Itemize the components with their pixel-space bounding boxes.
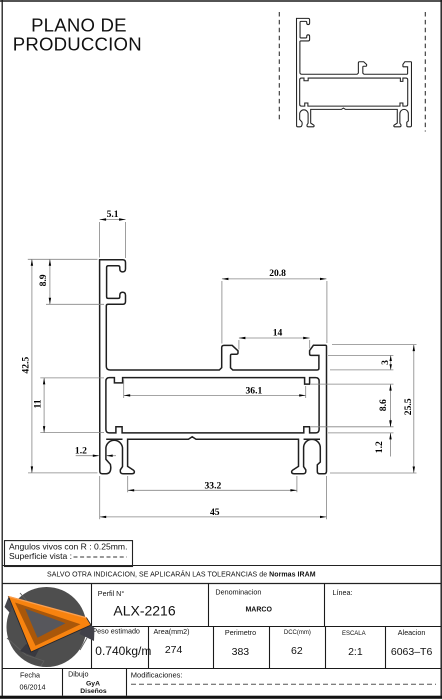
dimension 33.2 lines [127,476,129,492]
svg-text:Perfil N°: Perfil N° [98,589,125,598]
wire: bottom wall underside over left arch [106,438,122,440]
svg-text:20.8: 20.8 [269,268,286,279]
svg-text:33.2: 33.2 [205,481,222,492]
logo orange triangle frame [9,597,92,653]
svg-text:Diseños: Diseños [80,688,107,695]
svg-text:Línea:: Línea: [333,588,353,597]
dimension 42.5 line [31,259,33,473]
svg-text:Area(mm2): Area(mm2) [154,627,190,636]
svg-text:62: 62 [291,645,303,657]
dimension 11 lines [40,377,104,379]
svg-text:PRODUCCION: PRODUCCION [13,34,142,55]
svg-text:14: 14 [273,327,283,338]
mini view dashed line left [278,12,280,120]
svg-text:Perimetro: Perimetro [225,628,256,637]
dimension 8.6 lines [311,383,394,385]
svg-text:ESCALA: ESCALA [342,631,366,637]
svg-text:SALVO OTRA INDICACION, SE APLI: SALVO OTRA INDICACION, SE APLICARÁN LAS … [47,569,316,578]
wire: bottom wall underside over right arch [304,438,320,440]
svg-text:PLANO DE: PLANO DE [31,14,127,35]
bottom thick bar [0,696,442,699]
dimensions [28,220,417,520]
svg-text:8.9: 8.9 [38,274,49,286]
tolerance strip [2,566,441,584]
svg-text:383: 383 [232,646,250,658]
main profile drawing [100,260,327,474]
svg-text:Superficie vista :: Superficie vista : [9,551,72,561]
dimension 45 lines [99,476,101,519]
svg-text:5.1: 5.1 [107,209,119,220]
dimension 5.1 extension lines [99,222,101,258]
svg-text:GyA: GyA [86,681,100,688]
svg-text:Denominacion: Denominacion [215,588,261,597]
mini profile (top-right preview) [296,18,411,126]
svg-text:8.6: 8.6 [378,399,389,411]
notes box [5,541,133,567]
dimension 1.2 left leader [76,455,99,457]
title block texts [20,588,436,695]
title block table lines [2,584,441,696]
dimension 14 lines [238,340,240,350]
svg-text:2:1: 2:1 [348,646,363,658]
svg-text:6063–T6: 6063–T6 [391,646,433,658]
mini view dashed line right [424,12,426,132]
svg-text:274: 274 [165,644,183,656]
dimension 25.5 lines [332,344,417,346]
svg-text:ALX-2216: ALX-2216 [113,603,175,619]
svg-text:1.2: 1.2 [75,445,87,456]
dimension 3 lines [328,354,393,356]
svg-text:Aleacion: Aleacion [398,628,426,637]
logo extrusion side faces [80,618,95,642]
dimension 1.2 right lines [328,432,394,434]
dimension 36.1 lines [123,380,125,399]
svg-text:Peso estimado: Peso estimado [92,626,140,635]
svg-text:25.5: 25.5 [403,398,414,415]
svg-text:MARCO: MARCO [245,607,272,614]
svg-text:Modificaciones:: Modificaciones: [131,670,183,679]
svg-text:42.5: 42.5 [20,357,31,374]
dimension arrowheads [31,218,415,518]
dimension 5.1 line [100,219,126,221]
svg-text:Fecha: Fecha [20,671,40,680]
dimension texts [20,209,414,518]
svg-text:3: 3 [380,360,391,365]
svg-text:0.740kg/m: 0.740kg/m [95,644,151,658]
logo [5,587,95,667]
svg-text:DCC(mm): DCC(mm) [284,630,311,636]
svg-text:1.2: 1.2 [374,441,385,453]
dimension 8.9 extension lines [28,258,98,260]
svg-text:06/2014: 06/2014 [20,682,46,691]
svg-text:11: 11 [33,399,44,408]
dimension 8.9 line [49,259,51,304]
svg-text:Dibujo: Dibujo [68,670,88,679]
svg-text:45: 45 [210,507,220,518]
svg-text:36.1: 36.1 [246,386,263,397]
svg-text:Angulos vivos con R : 0.25mm.: Angulos vivos con R : 0.25mm. [9,542,127,552]
dimension 20.8 lines [221,281,223,344]
